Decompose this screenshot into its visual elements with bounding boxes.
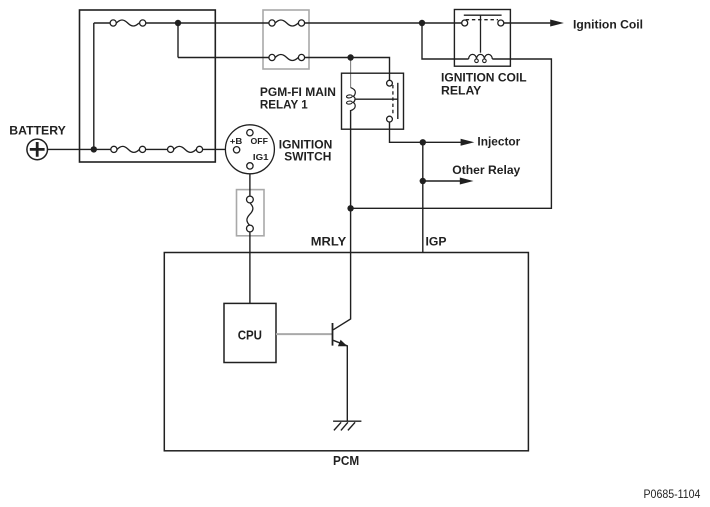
ground — [333, 421, 361, 430]
arrow Other Relay — [423, 178, 474, 185]
fuse box FB3 ignition fuse — [237, 190, 265, 236]
wire inner vertical FB1 — [93, 23, 95, 149]
svg-text:P0685-1104: P0685-1104 — [644, 487, 701, 501]
svg-text:OFF: OFF — [251, 136, 268, 146]
svg-text:Injector: Injector — [477, 134, 520, 148]
wire drop to bus2 — [177, 23, 179, 58]
wire bus2 to relay contact — [178, 58, 390, 84]
svg-text:BATTERY: BATTERY — [9, 124, 66, 138]
node junction battery row — [91, 146, 97, 152]
fuse F2 — [111, 146, 146, 152]
wire bus1 top — [94, 22, 551, 24]
relay K1 PGM-FI main relay 1 — [342, 73, 404, 129]
fuse F5 — [269, 54, 305, 60]
fuse F4 — [269, 20, 305, 26]
label IGNITION SWITCH — [279, 138, 333, 164]
svg-text:Ignition Coil: Ignition Coil — [573, 18, 643, 32]
fuse F3 — [168, 146, 203, 152]
wire CPU base (gray) — [276, 333, 333, 335]
CPU box U2 — [224, 303, 276, 362]
wire MRLY line / collector — [333, 58, 350, 330]
svg-text:IGP: IGP — [426, 234, 447, 248]
node junction bus1-FB1 — [175, 20, 181, 26]
node junction bus2-K1 coil — [347, 54, 353, 60]
node junction injector — [420, 139, 426, 145]
svg-text:MRLY: MRLY — [311, 234, 346, 248]
svg-text:+B: +B — [230, 136, 243, 146]
svg-text:SWITCH: SWITCH — [284, 150, 331, 164]
svg-text:CPU: CPU — [238, 328, 262, 342]
battery BAT — [27, 139, 48, 160]
svg-text:PCM: PCM — [333, 454, 359, 468]
arrow Ignition Coil — [550, 20, 564, 27]
node junction bus1-K2 — [419, 20, 425, 26]
node junction MRLY return — [347, 205, 353, 211]
svg-text:RELAY 1: RELAY 1 — [260, 97, 308, 111]
wire IG1 to CPU — [249, 169, 251, 304]
fuse F1 — [110, 20, 146, 26]
transistor Q1 — [333, 323, 348, 421]
ignition switch SW1 — [225, 125, 274, 174]
label PGM-FI MAIN RELAY 1 — [260, 85, 336, 112]
wire IGP vertical — [422, 142, 424, 252]
node junction other relay — [420, 178, 426, 184]
wire battery to ignition switch +B — [48, 148, 237, 150]
svg-text:IG1: IG1 — [253, 152, 269, 162]
wire relay switch to injector node — [390, 119, 423, 142]
wire ignition coil relay coil return to MRLY node — [351, 59, 552, 208]
svg-text:RELAY: RELAY — [441, 84, 481, 98]
wire drop to ignition coil relay coil — [422, 23, 469, 59]
label IGNITION COIL RELAY — [441, 70, 527, 97]
fuse box FB1 — [80, 10, 216, 162]
arrow Injector — [423, 139, 475, 146]
fuse box FB2 PGM-FI fuses — [263, 10, 309, 69]
PCM box — [164, 253, 528, 451]
svg-text:IGNITION COIL: IGNITION COIL — [441, 70, 527, 84]
svg-text:Other Relay: Other Relay — [452, 163, 520, 177]
relay K2 ignition coil relay — [454, 10, 510, 67]
fuse F6 vertical — [247, 196, 254, 232]
